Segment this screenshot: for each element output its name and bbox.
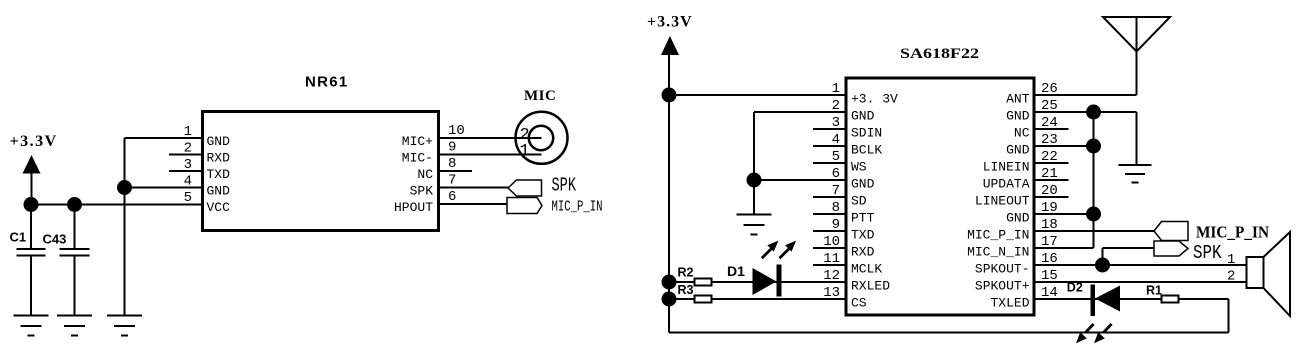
svg-text:3: 3 xyxy=(832,115,840,131)
svg-text:24: 24 xyxy=(1041,115,1058,131)
svg-text:ANT: ANT xyxy=(1006,92,1030,107)
svg-text:7: 7 xyxy=(832,183,840,199)
svg-text:9: 9 xyxy=(832,217,840,233)
svg-text:7: 7 xyxy=(448,173,456,189)
svg-text:MCLK: MCLK xyxy=(851,262,882,277)
svg-text:GND: GND xyxy=(1006,211,1030,226)
svg-text:11: 11 xyxy=(823,251,840,267)
svg-text:TXD: TXD xyxy=(851,228,875,243)
svg-text:SPK: SPK xyxy=(410,184,434,199)
svg-text:LINEIN: LINEIN xyxy=(983,160,1030,175)
svg-text:2: 2 xyxy=(832,98,840,114)
svg-text:9: 9 xyxy=(448,140,456,156)
svg-text:5: 5 xyxy=(832,149,840,165)
svg-text:TXD: TXD xyxy=(207,167,231,182)
svg-text:BCLK: BCLK xyxy=(851,143,882,158)
svg-text:21: 21 xyxy=(1041,166,1058,182)
svg-text:PTT: PTT xyxy=(851,211,875,226)
svg-text:6: 6 xyxy=(832,166,840,182)
svg-text:1: 1 xyxy=(520,142,530,161)
svg-text:SPKOUT-: SPKOUT- xyxy=(975,262,1030,277)
svg-text:17: 17 xyxy=(1041,234,1058,250)
svg-text:GND: GND xyxy=(1006,143,1030,158)
svg-text:NC: NC xyxy=(1014,126,1030,141)
svg-text:1: 1 xyxy=(1227,252,1235,268)
svg-text:+3.3V: +3.3V xyxy=(647,14,693,31)
svg-text:4: 4 xyxy=(832,132,840,148)
svg-text:5: 5 xyxy=(184,190,192,206)
svg-text:SPK: SPK xyxy=(1193,242,1222,264)
svg-text:8: 8 xyxy=(448,156,456,172)
svg-text:NC: NC xyxy=(417,167,433,182)
svg-text:TXLED: TXLED xyxy=(990,296,1029,311)
svg-text:VCC: VCC xyxy=(207,200,231,215)
svg-text:23: 23 xyxy=(1041,132,1058,148)
svg-text:GND: GND xyxy=(1006,109,1030,124)
svg-text:SD: SD xyxy=(851,194,867,209)
svg-text:NR61: NR61 xyxy=(305,74,349,91)
svg-text:GND: GND xyxy=(207,184,231,199)
svg-text:C43: C43 xyxy=(43,232,67,247)
svg-text:16: 16 xyxy=(1041,251,1058,267)
svg-text:14: 14 xyxy=(1041,285,1058,301)
svg-text:10: 10 xyxy=(448,123,465,139)
svg-text:12: 12 xyxy=(823,268,840,284)
svg-text:LINEOUT: LINEOUT xyxy=(975,194,1030,209)
svg-text:SA618F22: SA618F22 xyxy=(900,46,979,62)
svg-text:10: 10 xyxy=(823,234,840,250)
svg-text:2: 2 xyxy=(1227,269,1235,285)
svg-text:+3. 3V: +3. 3V xyxy=(851,92,898,107)
svg-text:25: 25 xyxy=(1041,98,1058,114)
svg-text:3: 3 xyxy=(184,157,192,173)
svg-text:R1: R1 xyxy=(1146,284,1162,298)
svg-text:GND: GND xyxy=(851,109,875,124)
svg-text:15: 15 xyxy=(1041,268,1058,284)
svg-text:GND: GND xyxy=(851,177,875,192)
svg-text:SPK: SPK xyxy=(552,175,577,197)
svg-text:22: 22 xyxy=(1041,149,1058,165)
svg-text:MIC_N_IN: MIC_N_IN xyxy=(967,245,1029,260)
svg-text:6: 6 xyxy=(448,189,456,205)
svg-text:+3.3V: +3.3V xyxy=(10,133,58,150)
svg-text:CS: CS xyxy=(851,296,867,311)
svg-text:HPOUT: HPOUT xyxy=(394,200,433,215)
svg-text:19: 19 xyxy=(1041,200,1058,216)
svg-text:18: 18 xyxy=(1041,217,1058,233)
svg-text:MIC+: MIC+ xyxy=(402,134,433,149)
svg-text:C1: C1 xyxy=(10,230,27,245)
svg-text:MIC_P_IN: MIC_P_IN xyxy=(1196,223,1270,242)
svg-text:8: 8 xyxy=(832,200,840,216)
svg-text:MIC_P_IN: MIC_P_IN xyxy=(967,228,1029,243)
svg-text:1: 1 xyxy=(184,124,192,140)
svg-text:20: 20 xyxy=(1041,183,1058,199)
svg-text:RXD: RXD xyxy=(851,245,875,260)
svg-text:D1: D1 xyxy=(727,263,745,279)
svg-text:R2: R2 xyxy=(678,266,694,280)
svg-text:2: 2 xyxy=(184,141,192,157)
svg-text:26: 26 xyxy=(1041,81,1058,97)
svg-text:MIC-: MIC- xyxy=(402,151,433,166)
svg-text:SDIN: SDIN xyxy=(851,126,882,141)
svg-text:13: 13 xyxy=(823,285,840,301)
svg-text:GND: GND xyxy=(207,134,231,149)
svg-text:RXLED: RXLED xyxy=(851,279,890,294)
svg-text:4: 4 xyxy=(184,174,192,190)
svg-text:UPDATA: UPDATA xyxy=(983,177,1030,192)
svg-text:R3: R3 xyxy=(678,283,694,297)
svg-text:MIC_P_IN: MIC_P_IN xyxy=(552,199,603,216)
svg-text:1: 1 xyxy=(832,81,840,97)
svg-text:SPKOUT+: SPKOUT+ xyxy=(975,279,1030,294)
svg-text:WS: WS xyxy=(851,160,867,175)
svg-text:RXD: RXD xyxy=(207,151,231,166)
svg-text:MIC: MIC xyxy=(524,88,556,104)
svg-text:D2: D2 xyxy=(1067,281,1083,295)
